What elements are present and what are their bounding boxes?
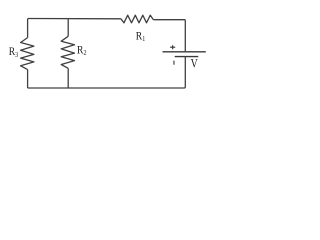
wire middle branch bottom stem: [67, 68, 69, 88]
svg-text:R3: R3: [9, 47, 19, 59]
wire middle branch top stem: [67, 19, 69, 37]
wire left rail bottom stem: [27, 70, 29, 88]
battery plus sign: [170, 45, 175, 49]
resistor R1 zigzag: [121, 15, 153, 23]
svg-text:V: V: [191, 57, 199, 71]
wire battery bottom lead: [28, 57, 186, 88]
svg-text:R1: R1: [136, 31, 145, 43]
battery V plates: [163, 52, 206, 57]
svg-text:R2: R2: [77, 45, 86, 57]
resistor R3 zigzag (left branch): [21, 38, 34, 70]
wire top rail left segment: [28, 19, 121, 38]
battery minus tick: [173, 61, 175, 65]
wire top rail right segment: [153, 20, 185, 52]
resistor R2 zigzag (middle branch): [61, 36, 74, 68]
